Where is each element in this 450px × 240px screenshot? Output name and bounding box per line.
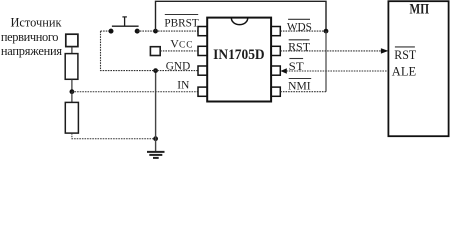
svg-text:NMI: NMI [288,79,311,93]
pin 7 square (RST) [271,46,280,55]
svg-text:МП: МП [410,1,430,18]
svg-text:IN: IN [177,77,189,91]
pin 4 square (IN) [198,87,207,96]
ground [147,152,165,158]
svg-text:первичного: первичного [1,30,59,44]
node bottom rail / ground junction [153,136,158,141]
node GND junction [153,68,158,73]
svg-text:ALE: ALE [392,64,417,78]
wire R2 to bottom rail corner [72,133,156,139]
wire vertical node C down to NMI row [325,31,327,92]
Vcc terminal square [150,47,160,56]
wire IN row: node A to IN pin [72,91,198,93]
wire top rail: node B up, across, down to WDS node [156,1,327,31]
pin 1 square (PBRST) [198,27,207,36]
wire node A to R2 [71,92,73,103]
svg-text:Источник: Источник [11,15,63,29]
wire GND vertical down to ground [155,71,157,151]
resistor R1 [65,54,78,80]
node B (PBRST / top-rail junction) [153,29,158,34]
label: source text "Источник первичного напряжения" [1,15,63,58]
wire RST row: pin 7 to MCU with arrow [280,50,387,52]
arrow into pin 6 (ST) [280,68,286,73]
pin 6 square (ST) [271,66,280,75]
terminal X1 (input terminal square) [66,34,78,46]
wire stub corner to button left contact [101,30,112,32]
pin 3 square (GND) [198,66,207,75]
MCU block МП [388,1,448,136]
wire NMI row: corner to pin 5 [280,91,326,93]
svg-text:RST: RST [288,40,311,54]
pushbutton SB1 [109,17,140,34]
svg-text:GND: GND [166,59,191,73]
IC notch [231,18,247,24]
wire terminal to R1 [71,47,73,54]
svg-text:напряжения: напряжения [1,44,62,58]
pin 8 square (WDS) [271,27,280,36]
wire GND row: left vertical corner to GND pin [101,31,199,71]
wire Vcc terminal to pin 2 [160,50,198,52]
node C (WDS junction) [324,29,329,34]
wire R1 to node A [71,79,73,91]
wire PBRST row: button right contact to pin 1 [137,30,198,32]
wire ST row: MCU to pin 6 with arrow [286,70,388,72]
resistor R2 [65,102,78,133]
pin 5 square (NMI) [271,87,280,96]
svg-text:IN1705D: IN1705D [213,47,265,63]
arrow into MCU (RST) [381,48,389,53]
node A (divider junction) [70,89,75,94]
wire WDS row: pin 8 to node C [280,30,326,32]
svg-text:PBRST: PBRST [164,15,199,29]
IC U1 body IN1705D [207,18,271,102]
pin 2 square (Vcc) [198,46,207,55]
svg-text:RST: RST [394,48,416,62]
